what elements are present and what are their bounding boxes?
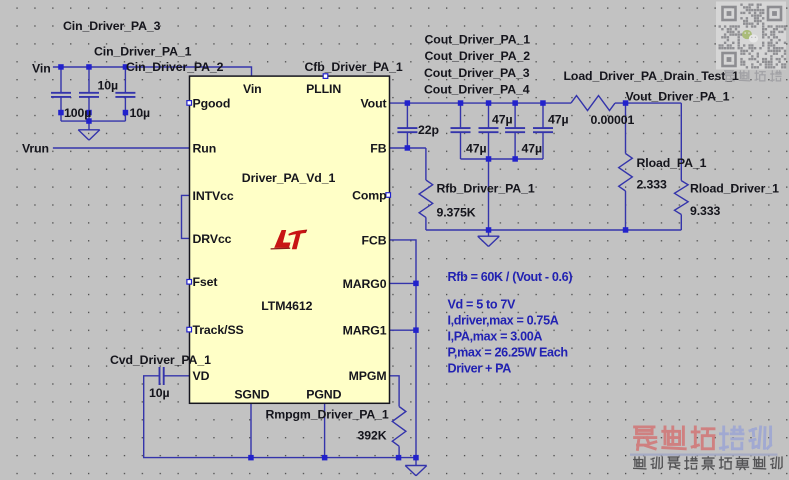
svg-text:Rfb_Driver_PA_1: Rfb_Driver_PA_1 (437, 181, 535, 195)
svg-text:Comp: Comp (352, 188, 386, 202)
svg-text:Cvd_Driver_PA_1: Cvd_Driver_PA_1 (110, 353, 211, 367)
svg-text:Vout_Driver_PA_1: Vout_Driver_PA_1 (626, 90, 730, 104)
svg-text:FCB: FCB (362, 233, 387, 247)
svg-text:Cout_Driver_PA_1: Cout_Driver_PA_1 (425, 32, 531, 46)
svg-text:PGND: PGND (306, 387, 341, 401)
svg-text:I,PA,max = 3.00A: I,PA,max = 3.00A (448, 330, 543, 344)
svg-text:P,max = 26.25W Each: P,max = 26.25W Each (448, 346, 568, 360)
svg-text:Cin_Driver_PA_3: Cin_Driver_PA_3 (63, 19, 161, 33)
svg-text:10µ: 10µ (149, 386, 169, 400)
svg-text:100µ: 100µ (64, 106, 91, 120)
svg-text:Vin: Vin (243, 82, 262, 96)
svg-text:SGND: SGND (234, 387, 269, 401)
svg-text:22p: 22p (418, 123, 439, 137)
svg-text:PLLIN: PLLIN (306, 82, 341, 96)
svg-text:DRVcc: DRVcc (193, 232, 232, 246)
svg-text:10µ: 10µ (130, 106, 150, 120)
svg-text:392K: 392K (358, 428, 387, 442)
svg-text:Cout_Driver_PA_3: Cout_Driver_PA_3 (424, 66, 530, 80)
svg-text:Cin_Driver_PA_1: Cin_Driver_PA_1 (94, 44, 192, 58)
svg-text:Driver_PA_Vd_1: Driver_PA_Vd_1 (242, 171, 336, 185)
svg-text:47µ: 47µ (522, 141, 542, 155)
svg-text:Load_Driver_PA_Drain_Test_1: Load_Driver_PA_Drain_Test_1 (564, 69, 739, 83)
svg-text:0.00001: 0.00001 (591, 113, 635, 127)
svg-text:MPGM: MPGM (349, 369, 387, 383)
svg-text:10µ: 10µ (98, 78, 118, 92)
svg-text:MARG0: MARG0 (343, 277, 387, 291)
svg-text:47µ: 47µ (492, 112, 512, 126)
svg-text:9.375K: 9.375K (437, 205, 476, 219)
svg-text:Vd = 5 to 7V: Vd = 5 to 7V (448, 298, 516, 312)
svg-text:Cout_Driver_PA_4: Cout_Driver_PA_4 (424, 83, 530, 97)
svg-text:47µ: 47µ (466, 141, 486, 155)
svg-text:Rload_Driver_1: Rload_Driver_1 (690, 181, 779, 195)
svg-text:Run: Run (193, 141, 217, 155)
svg-text:I,driver,max = 0.75A: I,driver,max = 0.75A (448, 314, 559, 328)
svg-text:Cout_Driver_PA_2: Cout_Driver_PA_2 (425, 49, 531, 63)
svg-text:Driver + PA: Driver + PA (448, 362, 512, 376)
svg-text:47µ: 47µ (548, 112, 568, 126)
svg-text:Cin_Driver_PA_2: Cin_Driver_PA_2 (126, 60, 224, 74)
svg-text:INTVcc: INTVcc (193, 189, 234, 203)
svg-text:MARG1: MARG1 (343, 324, 387, 338)
svg-text:9.333: 9.333 (690, 204, 721, 218)
svg-text:LTM4612: LTM4612 (261, 299, 312, 313)
svg-text:Rfb = 60K / (Vout - 0.6): Rfb = 60K / (Vout - 0.6) (448, 270, 573, 284)
svg-text:Vin: Vin (32, 62, 51, 76)
svg-text:Pgood: Pgood (193, 97, 231, 111)
svg-text:VD: VD (193, 369, 210, 383)
svg-text:FB: FB (370, 141, 386, 155)
svg-text:Track/SS: Track/SS (193, 323, 244, 337)
svg-text:Cfb_Driver_PA_1: Cfb_Driver_PA_1 (305, 60, 403, 74)
svg-text:Rload_PA_1: Rload_PA_1 (637, 156, 707, 170)
svg-text:Fset: Fset (193, 275, 218, 289)
svg-text:Rmpgm_Driver_PA_1: Rmpgm_Driver_PA_1 (266, 408, 389, 422)
svg-text:Vout: Vout (360, 97, 386, 111)
svg-text:Vrun: Vrun (22, 141, 49, 155)
svg-text:2.333: 2.333 (637, 178, 668, 192)
